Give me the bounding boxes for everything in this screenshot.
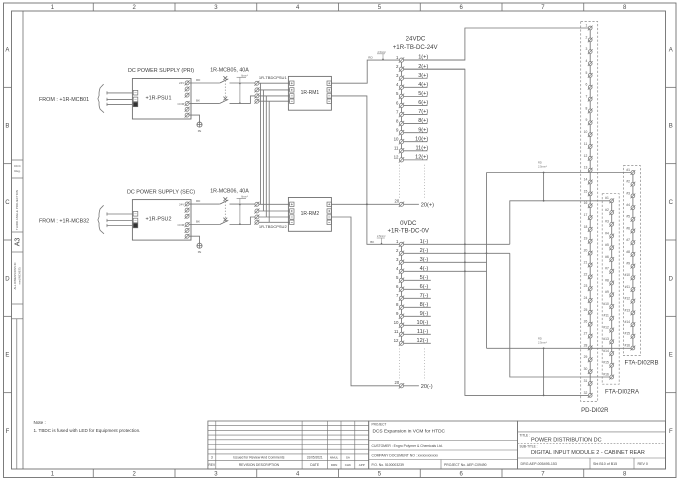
- FTA-DI02RA pin 4: [605, 231, 614, 238]
- 1R-TBDCPSU1 terminal 4: [255, 99, 259, 103]
- terminal 11(-) of +1R-TB-DC-0V: [394, 329, 431, 337]
- terminal 20(+) of +1R-TB-DC-24V: [395, 199, 435, 209]
- svg-text:8(-): 8(-): [420, 302, 429, 308]
- svg-text:+1R-PSU1: +1R-PSU1: [146, 95, 172, 101]
- svg-text:23: 23: [584, 284, 588, 288]
- svg-text:11: 11: [584, 142, 588, 146]
- terminal 6(-) of +1R-TB-DC-0V: [396, 284, 431, 292]
- terminal 20(-) of +1R-TB-DC-0V: [395, 380, 433, 390]
- svg-text:#8: #8: [626, 250, 630, 254]
- wire 1R-TBDCPSU2 terminal 2 to 1R-RM2: [259, 210, 290, 212]
- svg-text:16: 16: [584, 201, 588, 205]
- svg-text:ALL DIMENSIONS IN: ALL DIMENSIONS IN: [13, 263, 17, 290]
- svg-text:REV: REV: [209, 463, 216, 467]
- FTA-DI02RA pin 15: [603, 361, 614, 368]
- svg-text:PD-DI02R: PD-DI02R: [581, 408, 609, 414]
- svg-text:1. TBDC is fused with LED for: 1. TBDC is fused with LED for Equipment …: [34, 428, 141, 433]
- svg-text:TITLE :: TITLE :: [520, 434, 531, 438]
- svg-text:#11: #11: [625, 285, 630, 289]
- svg-text:DCC: DCC: [14, 164, 21, 168]
- 1R-TBDCPSU1 terminal 1: [255, 81, 259, 85]
- FTA-DI02RA internal bus line: [611, 201, 613, 377]
- terminal 10(+) of +1R-TB-DC-24V: [394, 136, 429, 144]
- svg-text:#16: #16: [624, 343, 630, 347]
- note text: [34, 420, 141, 433]
- svg-text:10: 10: [394, 137, 399, 142]
- cross-connect wire 4 between 1R-TBDCPSU1 and 1R-TBDCPSU2: [268, 101, 270, 222]
- FTA-DI02RA pin 9: [605, 290, 614, 297]
- svg-text:Issued for Review And Comments: Issued for Review And Comments: [233, 456, 284, 460]
- terminal 5(+) of +1R-TB-DC-24V: [396, 91, 428, 99]
- svg-text:5(+): 5(+): [418, 91, 428, 97]
- PD-DI02R pin 25: [584, 308, 593, 315]
- svg-text:6(+): 6(+): [418, 100, 428, 106]
- svg-text:#2: #2: [626, 180, 630, 184]
- svg-text:2(-): 2(-): [420, 248, 429, 254]
- svg-text:6(-): 6(-): [420, 284, 429, 290]
- svg-text:4(-): 4(-): [420, 266, 429, 272]
- terminal 1(+) of +1R-TB-DC-24V: [396, 55, 465, 63]
- svg-text:15: 15: [584, 189, 588, 193]
- 1R-RM1 right terminal 4 (−): [327, 99, 331, 103]
- field termination assembly FTA-DI02RA: [602, 194, 639, 396]
- PSU1 input terminal PE (filled): [133, 102, 138, 107]
- svg-text:19: 19: [584, 237, 588, 241]
- wire 1R-TBDCPSU2 terminal 1 to 1R-RM2: [259, 203, 290, 205]
- svg-text:1: 1: [585, 23, 587, 27]
- svg-text:A: A: [669, 47, 673, 53]
- svg-text:PROJECT: PROJECT: [372, 423, 387, 427]
- svg-text:#10: #10: [624, 273, 630, 277]
- svg-text:6mm²: 6mm²: [241, 74, 248, 78]
- terminal 1(-) of +1R-TB-DC-0V: [396, 239, 510, 247]
- svg-text:FROM : +1R-MCB01: FROM : +1R-MCB01: [39, 97, 89, 103]
- svg-text:BK: BK: [196, 98, 200, 102]
- document control box DCC Reg.: [12, 159, 23, 161]
- FTA-DI02RB pin 9: [626, 262, 635, 269]
- breaker 1R-MCB06 mechanical link (dashed): [224, 202, 226, 222]
- tie wire RD 2.5mm2 between RB pin1 feed and RA pin1 feed: [538, 161, 547, 202]
- PSU1 output terminals column: [185, 80, 190, 117]
- PD-DI02R pin 23: [584, 284, 593, 291]
- cross-connect wire 1 between 1R-TBDCPSU1 and 1R-TBDCPSU2: [260, 83, 262, 204]
- FTA-DI02RB pin 6: [626, 226, 635, 233]
- svg-text:MMUL: MMUL: [330, 456, 339, 460]
- breaker 1R-MCB05 mechanical link (dashed): [224, 81, 226, 101]
- terminal 9(+) of +1R-TB-DC-24V: [396, 127, 428, 135]
- PD-DI02R pin 26: [584, 320, 593, 327]
- FTA-DI02RA pin 7: [605, 267, 614, 274]
- svg-text:#12: #12: [603, 325, 609, 329]
- svg-text:FTA-DI02RA: FTA-DI02RA: [605, 390, 639, 396]
- FTA-DI02RB pin 5: [626, 215, 635, 222]
- 1R-TBDCPSU1 terminal 2: [255, 88, 259, 92]
- FTA-DI02RA pin 10: [603, 302, 614, 309]
- 1R-TBDCPSU2 terminal 4: [255, 220, 259, 224]
- svg-text:A: A: [5, 47, 9, 53]
- svg-text:BK: BK: [370, 240, 374, 244]
- svg-text:COM: COM: [177, 223, 184, 227]
- breaker 1R-MCB06 pole 2 contact: [220, 218, 229, 225]
- svg-text:2.5mm²: 2.5mm²: [538, 165, 547, 169]
- terminal 8(-) of +1R-TB-DC-0V: [396, 302, 431, 310]
- PSU2 output terminals column: [185, 202, 190, 239]
- power supply unit +1R-PSU1: [132, 79, 191, 120]
- 24V TB internal bus line: [401, 60, 403, 160]
- terminal 9(-) of +1R-TB-DC-0V: [396, 311, 431, 319]
- 1R-RM2 right terminal 1 (+): [327, 202, 331, 206]
- svg-text:18: 18: [584, 225, 588, 229]
- svg-text:11(-): 11(-): [417, 329, 429, 335]
- svg-text:#1: #1: [626, 168, 630, 172]
- feeder wire N: [107, 98, 134, 100]
- PD-DI02R pin 3: [585, 47, 592, 54]
- svg-text:#9: #9: [605, 290, 609, 294]
- PD-DI02R pin 24: [584, 296, 593, 303]
- svg-text:7(-): 7(-): [420, 293, 429, 299]
- wire 1R-TBDCPSU1 terminal 4 to 1R-RM1: [259, 100, 290, 102]
- PD-DI02R pin 30: [584, 367, 593, 374]
- 1R-RM1 right terminal 3 (−): [327, 94, 331, 98]
- FTA-DI02RB pin 11: [625, 285, 636, 292]
- 1R-RM2 right terminal 4 (−): [327, 220, 331, 224]
- feeder brace: [98, 84, 104, 113]
- svg-text:10: 10: [584, 130, 588, 134]
- 1R-RM1 left terminal 2 (+): [290, 88, 294, 92]
- svg-text:PE: PE: [198, 250, 202, 254]
- svg-text:32: 32: [584, 391, 588, 395]
- FTA-DI02RA pin 1: [605, 196, 614, 203]
- svg-text:11: 11: [394, 146, 399, 151]
- svg-text:CHK: CHK: [345, 463, 351, 467]
- 1R-RM2 left terminal 2 (+): [290, 209, 294, 213]
- FTA-DI02RA pin 3: [605, 220, 614, 227]
- 1R-RM2 right terminal 2 (+): [327, 209, 331, 213]
- terminal 2(+) of +1R-TB-DC-24V: [396, 64, 465, 72]
- wire 1R-TBDCPSU1 terminal 1 to 1R-RM1: [259, 82, 290, 84]
- svg-text:#14: #14: [603, 349, 609, 353]
- breaker 1R-MCB06 pole 1 wire in (RD): [189, 203, 220, 205]
- PD-DI02R pin 21: [584, 260, 593, 267]
- svg-text:E: E: [5, 353, 9, 359]
- PD-DI02R pin 12: [584, 154, 593, 161]
- svg-text:10(+): 10(+): [415, 136, 428, 142]
- svg-text:#4: #4: [605, 231, 609, 235]
- FTA-DI02RB pin 2: [626, 180, 635, 187]
- PD-DI02R pin 18: [584, 225, 593, 232]
- breaker 1R-MCB06 pole 2 wire out with jog: [230, 217, 255, 225]
- power supply unit +1R-PSU2: [132, 200, 191, 241]
- PD-DI02R pin 7: [585, 95, 592, 102]
- cross-connect wire 3 between 1R-TBDCPSU1 and 1R-TBDCPSU2: [265, 96, 267, 217]
- svg-text:#3: #3: [605, 220, 609, 224]
- breaker 1R-MCB06 pole 1 contact: [220, 197, 229, 204]
- svg-text:FTA-DI02RB: FTA-DI02RB: [625, 361, 659, 367]
- svg-text:F: F: [669, 429, 673, 435]
- PD-DI02R pin 20: [584, 249, 593, 256]
- terminal 4(+) of +1R-TB-DC-24V: [396, 82, 428, 90]
- svg-text:DC POWER SUPPLY (SEC): DC POWER SUPPLY (SEC): [127, 189, 195, 195]
- svg-text:20: 20: [395, 199, 400, 204]
- wire to FTA-DI02RB pin 16: [487, 347, 632, 349]
- svg-text:#10: #10: [603, 302, 609, 306]
- svg-text:4(+): 4(+): [418, 82, 428, 88]
- PD-DI02R pin 19: [584, 237, 593, 244]
- PD-DI02R pin 28: [584, 343, 593, 350]
- svg-text:RD: RD: [538, 336, 542, 340]
- svg-text:DIGITAL INPUT MODULE 2 - CABIN: DIGITAL INPUT MODULE 2 - CABINET REAR: [531, 450, 645, 456]
- FTA-DI02RA pin 14: [603, 349, 614, 356]
- svg-text:#16: #16: [603, 372, 609, 376]
- svg-text:COMPANY DOCUMENT NO : xxxxxxx: COMPANY DOCUMENT NO : xxxxxxxxxxxx: [372, 454, 439, 458]
- svg-text:3: 3: [585, 47, 587, 51]
- svg-text:7(+): 7(+): [418, 109, 428, 115]
- riser wire joining 0V stubs 3 and 4 to FTA-DI02RB: [486, 173, 488, 349]
- breaker 1R-MCB05 pole 1 contact: [220, 76, 229, 83]
- power distribution board PD-DI02R: [581, 22, 609, 415]
- PD-DI02R pin 27: [584, 332, 593, 339]
- terminal 5(-) of +1R-TB-DC-0V: [396, 275, 431, 283]
- wire 1R-TBDCPSU1 terminal 3 to 1R-RM1: [259, 95, 290, 97]
- svg-text:Note :: Note :: [34, 420, 46, 425]
- FTA-DI02RB pin 4: [626, 203, 635, 210]
- wire to FTA-DI02RB pin 1: [487, 172, 632, 174]
- svg-text:1R-TBDCPSU1: 1R-TBDCPSU1: [259, 75, 288, 80]
- PD-DI02R pin 10: [584, 130, 593, 137]
- FTA-DI02RB pin 10: [624, 273, 635, 280]
- svg-text:6: 6: [585, 83, 587, 87]
- wire 1R-TBDCPSU2 terminal 3 to 1R-RM2: [259, 216, 290, 218]
- PD-DI02R pin 22: [584, 272, 593, 279]
- 24V TB continuation dotted lines: [399, 165, 401, 200]
- FTA-DI02RB internal bus line: [632, 173, 634, 349]
- svg-text:9: 9: [585, 118, 587, 122]
- svg-text:RD: RD: [538, 161, 542, 165]
- PD-DI02R pin 29: [584, 355, 593, 362]
- redundancy module 1R-RM1: [288, 76, 331, 110]
- FTA-DI02RB pin 3: [626, 191, 635, 198]
- FTA-DI02RA pin 16: [603, 372, 614, 379]
- svg-text:E: E: [669, 353, 673, 359]
- svg-text:FROM : +1R-MCB32: FROM : +1R-MCB32: [39, 218, 89, 224]
- svg-text:22: 22: [584, 272, 588, 276]
- svg-text:C: C: [5, 200, 10, 206]
- PD-DI02R pin 15: [584, 189, 593, 196]
- svg-text:5: 5: [585, 71, 587, 75]
- feeder wire N: [107, 220, 134, 222]
- PD-DI02R pin 6: [585, 83, 592, 90]
- svg-text:#11: #11: [604, 314, 609, 318]
- PD-DI02R pin 8: [585, 106, 592, 113]
- wire 24V TB terminal 2 down to PD-DI02R pin 32: [404, 69, 589, 395]
- wire 1R-RM2 (-) output down to TB-DC-0V terminal 20: [331, 217, 399, 386]
- 1R-TBDCPSU2 terminal 2: [255, 209, 259, 213]
- PSU2 input terminal L: [133, 212, 138, 217]
- 1R-RM2 right terminal 3 (−): [327, 215, 331, 219]
- svg-text:29: 29: [584, 355, 588, 359]
- PSU2 input terminal PE (filled): [133, 223, 138, 228]
- svg-text:DCS Expansion in VCM for HTDC: DCS Expansion in VCM for HTDC: [373, 429, 446, 435]
- junction at crossing of RM1- drop and RM2+ feed: [366, 203, 368, 205]
- svg-text:B: B: [669, 124, 673, 130]
- svg-text:1R-RM2: 1R-RM2: [301, 211, 320, 217]
- svg-text:6mm²: 6mm²: [241, 195, 248, 199]
- terminal 3(+) of +1R-TB-DC-24V: [396, 73, 428, 81]
- svg-text:9(-): 9(-): [420, 311, 429, 317]
- terminal 3(-) of +1R-TB-DC-0V: [396, 257, 486, 265]
- svg-text:P.O. No. 5100003239: P.O. No. 5100003239: [372, 463, 404, 467]
- PD-DI02R pin 13: [584, 166, 593, 173]
- wire 1R-TBDCPSU2 terminal 4 to 1R-RM2: [259, 221, 290, 223]
- svg-text:3(-): 3(-): [420, 257, 429, 263]
- svg-text:A3: A3: [15, 238, 22, 247]
- terminal 7(-) of +1R-TB-DC-0V: [396, 293, 431, 301]
- field termination assembly FTA-DI02RB: [623, 166, 658, 367]
- svg-text:1(-): 1(-): [420, 239, 429, 245]
- svg-text:#1: #1: [605, 196, 609, 200]
- svg-text:#3: #3: [626, 191, 630, 195]
- svg-text:DRN: DRN: [331, 463, 338, 467]
- svg-text:20(+): 20(+): [421, 202, 434, 208]
- PSU1 input terminal L: [133, 90, 138, 95]
- svg-text:B: B: [5, 124, 9, 130]
- svg-text:10(-): 10(-): [416, 320, 428, 326]
- junctions on 0V stub rows: [464, 243, 487, 272]
- svg-text:REVISION DESCRIPTION: REVISION DESCRIPTION: [239, 463, 280, 467]
- svg-text:DC POWER SUPPLY (PRI): DC POWER SUPPLY (PRI): [128, 68, 194, 74]
- wire 1R-RM1 (-) output down to TB-DC-0V terminal 1: [331, 96, 399, 244]
- svg-text:1R-RM1: 1R-RM1: [301, 90, 320, 96]
- terminal 8(+) of +1R-TB-DC-24V: [396, 118, 428, 126]
- svg-text:1R-MCB06, 40A: 1R-MCB06, 40A: [210, 189, 249, 195]
- svg-text:21: 21: [584, 260, 588, 264]
- 1R-RM2 left terminal 4 (−): [290, 220, 294, 224]
- svg-text:12(+): 12(+): [415, 154, 428, 160]
- terminal 10(-) of +1R-TB-DC-0V: [394, 320, 431, 328]
- wire size callout at 1R-MCB05: [237, 74, 248, 104]
- svg-text:1R-MCB05, 40A: 1R-MCB05, 40A: [210, 68, 249, 74]
- svg-text:PROJECT No. AEP-C09490: PROJECT No. AEP-C09490: [444, 463, 487, 467]
- svg-text:#15: #15: [624, 332, 630, 336]
- FTA-DI02RB pin 7: [626, 238, 635, 245]
- svg-text:2.5mm²: 2.5mm²: [377, 235, 386, 238]
- FTA-DI02RB pin 15: [624, 332, 635, 339]
- svg-text:#13: #13: [624, 308, 630, 312]
- FTA-DI02RA pin 5: [605, 243, 614, 250]
- 1R-RM1 right terminal 1 (+): [327, 81, 331, 85]
- svg-text:24VDC: 24VDC: [406, 36, 426, 43]
- FTA-DI02RB pin 16: [624, 343, 635, 350]
- FTA-DI02RA pin 2: [605, 208, 614, 215]
- PD-DI02R pin 11: [584, 142, 593, 149]
- revision history table: [208, 421, 369, 469]
- wire size callout at 1R-MCB06: [237, 195, 248, 225]
- FTA-DI02RA pin 6: [605, 255, 614, 262]
- svg-text:24V: 24V: [179, 81, 184, 85]
- svg-text:DRG AEP-005495-153: DRG AEP-005495-153: [521, 462, 557, 466]
- svg-text:11: 11: [394, 329, 399, 334]
- FTA-DI02RB pin 8: [626, 250, 635, 257]
- terminal 4(-) of +1R-TB-DC-0V: [396, 266, 486, 274]
- svg-text:20: 20: [584, 249, 588, 253]
- terminal 12(-) of +1R-TB-DC-0V: [394, 338, 431, 346]
- svg-text:#5: #5: [626, 215, 630, 219]
- svg-text:D: D: [5, 276, 10, 282]
- svg-text:#2: #2: [605, 208, 609, 212]
- PSU1 input terminal N: [133, 97, 138, 102]
- breaker 1R-MCB06 pole 2 wire in (BK): [189, 224, 220, 226]
- FTA-DI02RA pin 8: [605, 278, 614, 285]
- earth wire from PSU1 to PE: [189, 115, 199, 122]
- FTA-DI02RB pin 1: [626, 168, 635, 175]
- project information block: [369, 421, 518, 469]
- svg-text:APP: APP: [359, 463, 365, 467]
- wire 1R-RM1 (+) output to TB-DC-24V terminal 1: [331, 60, 399, 83]
- terminal 6(+) of +1R-TB-DC-24V: [396, 100, 428, 108]
- tie wire RD 2.5mm2 between RB pin16 feed and PD pin32 feed: [538, 336, 547, 396]
- svg-text:2.5mm²: 2.5mm²: [378, 51, 387, 54]
- svg-text:20(-): 20(-): [421, 384, 433, 390]
- PD-DI02R internal bus line: [589, 28, 591, 395]
- svg-text:5(-): 5(-): [420, 275, 429, 281]
- svg-text:SA: SA: [346, 456, 350, 460]
- PD-DI02R pin 9: [585, 118, 592, 125]
- svg-text:#8: #8: [605, 278, 609, 282]
- 1R-TBDCPSU1 terminal 3: [255, 94, 259, 98]
- svg-text:CUSTOMER : Engro Polymer & Che: CUSTOMER : Engro Polymer & Chemicals Ltd…: [372, 444, 443, 448]
- svg-text:#6: #6: [626, 226, 630, 230]
- svg-text:Reg.: Reg.: [14, 169, 21, 173]
- wire 0V TB terminal 2 down to FTA-DI02RA pin 16: [510, 253, 610, 377]
- cross-connect wire 2 between 1R-TBDCPSU1 and 1R-TBDCPSU2: [262, 90, 264, 211]
- FTA-DI02RB pin 13: [624, 308, 635, 315]
- svg-text:#9: #9: [626, 262, 630, 266]
- 1R-RM1 left terminal 1 (+): [290, 81, 294, 85]
- left margin narrow strip: [12, 318, 23, 320]
- breaker 1R-MCB05 pole 1 wire in (RD): [189, 82, 220, 84]
- svg-text:+1R-TB-DC-24V: +1R-TB-DC-24V: [393, 44, 439, 51]
- svg-text:DATE: DATE: [310, 463, 320, 467]
- svg-text:#6: #6: [605, 255, 609, 259]
- svg-text:D: D: [669, 276, 674, 282]
- wire 24V TB terminal 1 to PD-DI02R pin 1: [404, 28, 589, 60]
- breaker 1R-MCB05 pole 1 wire out: [230, 82, 255, 84]
- feeder wire PE: [107, 103, 134, 105]
- svg-text:THIRD ANGLE PROJECTION: THIRD ANGLE PROJECTION: [15, 190, 19, 230]
- protective earth symbol PE of PSU1: [197, 122, 202, 133]
- breaker 1R-MCB05 pole 2 contact: [220, 97, 229, 104]
- feeder wire PE: [107, 225, 134, 227]
- breaker 1R-MCB06 pole 1 wire out: [230, 203, 255, 205]
- svg-text:25: 25: [584, 308, 588, 312]
- FTA-DI02RB pin 12: [624, 297, 635, 304]
- svg-text:9(+): 9(+): [418, 127, 428, 133]
- title block: [518, 421, 666, 469]
- svg-text:10: 10: [394, 320, 399, 325]
- svg-text:7: 7: [585, 95, 587, 99]
- terminal 11(+) of +1R-TB-DC-24V: [394, 145, 428, 153]
- svg-text:24V: 24V: [179, 202, 184, 206]
- PD-DI02R pin 1: [585, 23, 592, 30]
- svg-text:#13: #13: [603, 337, 609, 341]
- svg-text:PE: PE: [198, 129, 202, 133]
- svg-text:27: 27: [584, 332, 588, 336]
- svg-text:8: 8: [585, 106, 587, 110]
- wire 0V TB terminal 1 up to FTA-DI02RA pin 1: [510, 201, 610, 245]
- svg-text:#14: #14: [624, 320, 630, 324]
- redundancy module 1R-RM2: [288, 198, 331, 232]
- svg-text:2: 2: [585, 35, 587, 39]
